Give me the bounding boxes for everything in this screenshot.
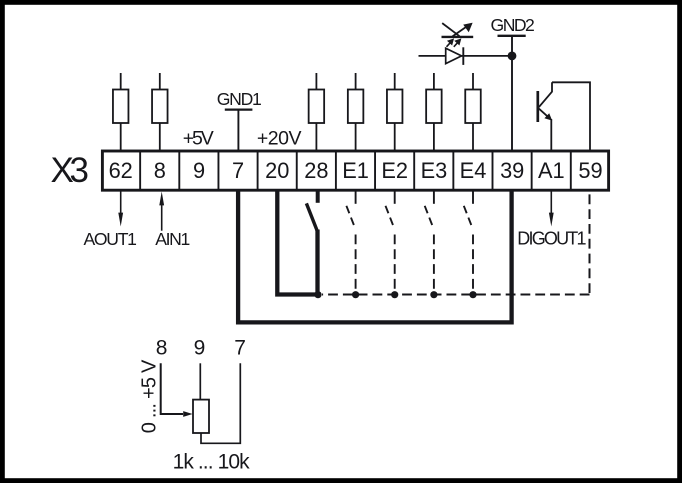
svg-text:E3: E3 <box>421 158 448 183</box>
switch S1 terminal 28 (bold) <box>306 189 317 295</box>
wire from 8 to wiper <box>161 363 183 414</box>
wiper arrow <box>183 411 192 417</box>
phototransistor Q1 <box>538 82 552 122</box>
wire potentiometer bottom to 7 <box>201 363 240 443</box>
svg-text:E2: E2 <box>381 158 408 183</box>
resistor above terminal 62 <box>113 73 129 151</box>
ground GND2 <box>491 15 535 151</box>
svg-text:E1: E1 <box>342 158 369 183</box>
switch E1 (dashed) <box>346 191 355 295</box>
ground GND1 <box>217 89 262 151</box>
wire from 9 to potentiometer top <box>199 363 201 399</box>
resistor above terminal E4 <box>465 73 481 151</box>
junction dot GND2 / LED wire <box>508 52 517 61</box>
wire collector to terminal 59 <box>552 82 590 151</box>
svg-text:28: 28 <box>304 158 328 183</box>
svg-text:1k ... 10k: 1k ... 10k <box>173 450 251 473</box>
svg-text:DIGOUT1: DIGOUT1 <box>517 229 586 249</box>
svg-text:20: 20 <box>265 158 289 183</box>
junction dot E3 <box>430 291 437 298</box>
resistor above terminal E1 <box>348 73 364 151</box>
svg-text:9: 9 <box>194 337 206 360</box>
thick wire terminal 7 to terminal 39 <box>238 191 512 323</box>
LED diode <box>446 47 464 65</box>
resistor above terminal E2 <box>387 73 403 151</box>
svg-text:AOUT1: AOUT1 <box>83 229 137 249</box>
svg-text:7: 7 <box>234 337 246 360</box>
svg-text:GND1: GND1 <box>217 89 262 109</box>
junction dot bus / terminal 20 wire <box>314 291 321 298</box>
svg-text:+20V: +20V <box>257 127 302 149</box>
junction dot E1 <box>352 291 359 298</box>
dashed wire terminal 59 <box>589 191 591 294</box>
svg-text:X3: X3 <box>50 151 89 190</box>
resistor above terminal 8 <box>152 73 168 151</box>
arrow AIN1 <box>159 192 164 231</box>
wire emitter to terminal A1 <box>550 119 552 151</box>
LED emission arrows <box>447 40 461 47</box>
resistor above terminal 28 <box>309 73 325 151</box>
svg-text:8: 8 <box>156 337 168 360</box>
svg-text:8: 8 <box>154 158 166 183</box>
terminal block X3 <box>102 151 608 190</box>
junction dot E4 <box>469 291 476 298</box>
thick wire terminal 20 to bus junction <box>277 191 318 295</box>
svg-text:59: 59 <box>578 158 602 183</box>
svg-text:7: 7 <box>232 158 244 183</box>
svg-text:+5V: +5V <box>183 127 214 149</box>
arrow DIGOUT1 <box>549 191 554 227</box>
switch E2 (dashed) <box>386 191 395 295</box>
svg-text:AIN1: AIN1 <box>155 229 190 249</box>
switch E4 (dashed) <box>464 191 473 295</box>
resistor above terminal E3 <box>426 73 442 151</box>
svg-text:39: 39 <box>500 158 524 183</box>
junction dot E2 <box>391 291 398 298</box>
optical coupling symbol above LED <box>442 23 474 37</box>
svg-text:62: 62 <box>109 158 133 183</box>
switch E3 (dashed) <box>425 191 434 295</box>
wire LED anode <box>419 55 513 57</box>
arrow AOUT1 <box>118 191 123 227</box>
svg-text:0 ... +5 V: 0 ... +5 V <box>139 359 161 433</box>
svg-text:E4: E4 <box>460 158 487 183</box>
svg-text:A1: A1 <box>538 158 565 183</box>
dashed bus wire <box>322 294 590 296</box>
svg-text:9: 9 <box>193 158 205 183</box>
potentiometer 1k ... 10k <box>193 400 209 433</box>
svg-text:GND2: GND2 <box>491 15 535 35</box>
